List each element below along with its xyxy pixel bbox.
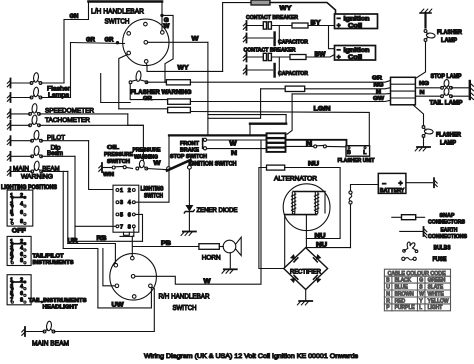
snap connector NU (267, 165, 285, 170)
oil pressure switch (102, 166, 126, 169)
svg-text:8: 8 (20, 258, 23, 264)
legend snap connectors (392, 215, 425, 220)
svg-text:FLASHER WARNING: FLASHER WARNING (131, 89, 192, 96)
svg-text:LIGHTING: LIGHTING (141, 187, 164, 193)
earth connection pilot lamp (7, 136, 10, 145)
svg-text:LAMP: LAMP (440, 141, 456, 147)
svg-text:STOP SWITCH: STOP SWITCH (170, 154, 207, 160)
wire flasher lamp left 2 (11, 97, 32, 99)
wire stack1 to flasher B (286, 140, 347, 146)
svg-text:Lamps: Lamps (48, 92, 69, 99)
svg-text:CABLE COLOUR CODE: CABLE COLOUR CODE (388, 271, 447, 277)
svg-text:RB: RB (97, 236, 108, 242)
ignition switch (167, 160, 192, 171)
svg-text:L/H HANDLEBAR: L/H HANDLEBAR (91, 7, 144, 16)
wire link vertical (285, 115, 287, 124)
wire GR riser flasher lamps (70, 43, 72, 98)
earth connection dip beam lamp (7, 152, 10, 161)
svg-text:GR: GR (105, 38, 115, 44)
svg-text:4: 4 (20, 284, 23, 290)
tachometer lamp (29, 115, 41, 127)
contact L/H upper-right (161, 31, 165, 35)
svg-text:+: + (337, 23, 341, 30)
svg-text:INSTRUMENTS: INSTRUMENTS (33, 260, 74, 266)
svg-text:W: W (163, 24, 169, 30)
wire W riser down (207, 42, 209, 134)
svg-text:6: 6 (128, 212, 131, 218)
wire UW riser (62, 171, 64, 248)
wire pilot to lighting switch (89, 141, 118, 190)
lighting switch tab (124, 232, 130, 235)
snap connector stack 4 (267, 148, 286, 152)
legend fuse (402, 257, 417, 260)
flasher lamp left 1 (30, 72, 42, 84)
wire stray left (101, 74, 131, 103)
contact L/H bottom (144, 60, 148, 64)
main beam warning lamp (31, 161, 43, 173)
contact L/H lower-left (127, 51, 131, 55)
wire ignition bus left drop (168, 135, 170, 202)
ground rectifier (297, 301, 312, 305)
wire N front brake (207, 148, 268, 150)
svg-text:8: 8 (128, 224, 131, 230)
wire GW drop (161, 2, 163, 31)
wire stop lamp earth (452, 87, 470, 89)
svg-text:FLASHER UNIT: FLASHER UNIT (338, 158, 376, 164)
svg-text:BLACK: BLACK (395, 278, 412, 284)
wire BY to coil 1 (308, 25, 335, 27)
svg-text:GN: GN (70, 14, 79, 20)
wire main beam warning riser UR (67, 171, 69, 243)
junction GW (160, 14, 163, 17)
svg-text:CONNECTIONS: CONNECTIONS (428, 234, 467, 240)
fuse battery (349, 191, 352, 204)
svg-text:N: N (420, 90, 425, 96)
wire speedometer riser (127, 114, 129, 125)
svg-text:GR: GR (143, 96, 153, 102)
wire tachometer to W (128, 125, 144, 160)
horn (223, 237, 241, 255)
wire stub left (120, 235, 134, 237)
svg-text:N: N (386, 291, 390, 297)
svg-text:UR: UR (68, 239, 79, 245)
svg-text:RED: RED (395, 298, 406, 304)
svg-text:R: R (386, 298, 390, 304)
contact R/H lower-right (149, 284, 153, 288)
wire BW to coil 2 (306, 55, 335, 58)
svg-text:8: 8 (20, 219, 23, 225)
wire thick bar (250, 122, 286, 124)
svg-text:SNAP: SNAP (440, 213, 455, 219)
svg-text:FRONT: FRONT (180, 141, 199, 147)
wire rectifier to ground (305, 290, 307, 302)
svg-text:GW: GW (373, 96, 385, 102)
svg-text:NU: NU (315, 232, 327, 239)
ground horn (222, 269, 237, 273)
wire WY to coil 1 (270, 3, 336, 15)
svg-text:BY: BY (311, 20, 322, 27)
wire W from R/H center (135, 140, 261, 284)
wire WY riser (223, 3, 251, 72)
lighting switch box (113, 185, 139, 232)
svg-text:UW: UW (112, 301, 124, 308)
wire tachometer lamp feed (40, 124, 144, 126)
svg-text:SWITCH: SWITCH (144, 194, 163, 200)
svg-text:6: 6 (20, 210, 23, 216)
earth contact breaker 2 (243, 53, 246, 62)
svg-text:CONNECTORS: CONNECTORS (428, 220, 465, 226)
wire stack3 to N switch (286, 145, 314, 147)
wire W to ignition (147, 169, 167, 170)
svg-text:RECTIFIER: RECTIFIER (290, 270, 322, 276)
cable colour code table (384, 269, 450, 311)
earth connection speedometer lamp (7, 109, 10, 118)
svg-text:BROWN: BROWN (395, 291, 415, 297)
wire UW bottom (98, 288, 151, 308)
wire speedometer lamp feed (40, 113, 128, 115)
wire pilot lamp (11, 140, 32, 142)
flasher warning lamp (129, 71, 148, 84)
rectifier (284, 248, 328, 290)
earth connection main beam warning lamp (7, 167, 10, 176)
wire fuse to rectifier (350, 204, 352, 248)
wire contact 7 left (75, 225, 116, 227)
lighting switch numbers (120, 188, 131, 230)
wire speedometer lamp (11, 113, 30, 115)
svg-text:ZENER DIODE: ZENER DIODE (197, 207, 238, 214)
wire flasher bottom to ground (423, 137, 425, 147)
svg-text:N: N (376, 89, 381, 95)
svg-text:WHITE: WHITE (428, 291, 445, 297)
earth connection tachometer lamp (7, 121, 10, 130)
svg-text:MAIN BEAM: MAIN BEAM (32, 339, 69, 348)
ignition coil 1 (335, 14, 378, 30)
svg-text:OFF: OFF (12, 228, 26, 235)
connector block rear harness (391, 77, 416, 105)
svg-text:WY: WY (178, 65, 190, 72)
svg-text:TAIL LAMP: TAIL LAMP (430, 99, 463, 106)
svg-text:W: W (230, 141, 238, 148)
snap connector LGN row (168, 107, 191, 112)
contact R/H center (131, 275, 135, 279)
snap connector stack 2 (267, 138, 286, 142)
alternator body (283, 184, 330, 231)
wire alternator right output (305, 215, 307, 248)
svg-text:BULBS: BULBS (434, 245, 451, 252)
svg-text:2: 2 (128, 188, 131, 194)
svg-text:Beam: Beam (47, 150, 63, 157)
dip beam lamp (31, 146, 43, 158)
contact breaker 1 points (247, 22, 293, 29)
svg-text:4: 4 (20, 201, 23, 207)
svg-text:ALTERNATOR: ALTERNATOR (274, 176, 317, 183)
svg-text:WN: WN (103, 172, 114, 178)
earth oil pressure switch (99, 163, 102, 172)
wire N to tail lamp (415, 95, 441, 97)
wire flasher bottom (413, 105, 424, 126)
wire battery negative (351, 185, 379, 192)
legend bulbs (403, 242, 418, 252)
wire flasher top to earth (424, 13, 426, 28)
snap connector horn (199, 244, 219, 250)
capacitor C1 (247, 26, 280, 46)
wire NG feed (261, 88, 286, 90)
ignition coil 2 (335, 46, 376, 62)
svg-text:W: W (192, 36, 200, 43)
svg-text:G: G (419, 278, 423, 284)
svg-text:7: 7 (120, 224, 123, 230)
wire L/H switch frame (162, 15, 173, 82)
capacitor C2 (247, 57, 280, 77)
wire dip beam lamp (11, 155, 32, 157)
wire left contact (103, 249, 115, 286)
svg-text:SWITCH: SWITCH (173, 303, 197, 312)
L/H handlebar switch body (123, 19, 169, 65)
contact R/H top (131, 256, 135, 260)
front brake stop switch (203, 138, 207, 150)
svg-text:FLASHER: FLASHER (436, 133, 462, 139)
svg-text:PRESSURE: PRESSURE (133, 148, 161, 154)
svg-text:3: 3 (120, 200, 123, 206)
svg-text:PILOT: PILOT (47, 135, 65, 142)
wire NU battery to rectifier (306, 247, 350, 249)
svg-text:NU: NU (316, 241, 328, 248)
svg-text:SWITCH: SWITCH (107, 159, 130, 165)
contact L/H top (144, 22, 148, 26)
flasher lamp left 2 (30, 87, 42, 99)
wire contact 4 to ignition bus (135, 201, 168, 203)
contact R/H upper-left (114, 263, 118, 267)
pilot lamp (31, 130, 43, 142)
rear brake switch N (314, 145, 327, 148)
svg-text:CONTACT BREAKER: CONTACT BREAKER (244, 48, 297, 54)
wire N drop (287, 94, 292, 134)
earth battery (434, 178, 437, 187)
wire flasher warning to connector (147, 81, 167, 83)
wire zener to ground (188, 212, 190, 232)
svg-text:STOP LAMP: STOP LAMP (431, 73, 462, 80)
wire ignition bus thick (169, 134, 267, 136)
svg-text:FLASHER: FLASHER (437, 30, 463, 36)
svg-text:LAMP: LAMP (441, 38, 457, 44)
svg-text:BLUE: BLUE (395, 284, 409, 290)
svg-text:−: − (337, 47, 341, 54)
wire main beam to R/H (54, 287, 154, 332)
earth contact breaker 1 (243, 21, 246, 30)
svg-text:CAPACITOR: CAPACITOR (278, 71, 309, 77)
svg-text:8: 8 (20, 298, 23, 304)
wire W from L/H center (148, 41, 208, 43)
wire NG to stop lamp (415, 87, 441, 89)
svg-text:SPEEDOMETER: SPEEDOMETER (45, 107, 94, 114)
svg-text:N: N (306, 141, 312, 147)
wire flasher top (415, 42, 425, 79)
contact R/H left (115, 284, 119, 288)
svg-text:R/H HANDLEBAR: R/H HANDLEBAR (159, 292, 210, 301)
svg-text:6: 6 (20, 252, 23, 258)
svg-text:TAIL,INSTRUMENTS: TAIL,INSTRUMENTS (29, 298, 87, 304)
svg-text:GR: GR (372, 76, 383, 82)
wire WY from bottom contact (146, 63, 222, 71)
earth stop/tail lamps (470, 81, 474, 100)
wire GW long (190, 100, 390, 101)
earth connection flasher lamp left 2 (7, 93, 10, 102)
svg-text:W: W (204, 278, 212, 285)
ground zener (181, 232, 196, 236)
svg-text:TACHOMETER: TACHOMETER (45, 117, 90, 124)
svg-text:PRESSURE: PRESSURE (104, 152, 133, 158)
svg-text:4: 4 (20, 245, 23, 251)
wire to horn (219, 246, 223, 248)
flasher lamp top right (424, 30, 435, 42)
svg-text:FUSE: FUSE (433, 256, 447, 263)
svg-text:6: 6 (20, 291, 23, 297)
main beam lamp (43, 321, 55, 333)
snap connector WY (251, 0, 270, 5)
ground flasher top (420, 9, 432, 13)
wire contact 6 (135, 214, 142, 241)
wire horn to ground (229, 253, 231, 269)
svg-text:NG: NG (419, 81, 430, 87)
wire W front brake (207, 139, 268, 141)
flasher lamp bottom right (422, 126, 433, 138)
snap connector GR row (166, 80, 190, 85)
wire N long (292, 93, 390, 95)
svg-text:+: + (337, 54, 341, 61)
junction GR (116, 41, 119, 44)
ground flasher bottom (415, 147, 430, 151)
svg-text:BRAKE: BRAKE (180, 148, 199, 154)
R/H handlebar switch body (110, 253, 157, 300)
wire NG drop (208, 89, 261, 119)
switch positions box OFF (7, 190, 33, 226)
contact L/H center (144, 41, 148, 45)
svg-text:WARNING: WARNING (21, 174, 53, 181)
svg-text:N: N (231, 150, 237, 157)
svg-text:W: W (419, 291, 424, 297)
wire main beam warning lamp feed (42, 170, 68, 172)
wire oil switch to pressure lamp (126, 167, 132, 168)
svg-text:PURPLE: PURPLE (395, 305, 416, 311)
zener diode (184, 205, 194, 213)
svg-text:PB: PB (161, 241, 172, 247)
svg-text:HEADLIGHT: HEADLIGHT (43, 305, 78, 311)
svg-text:W: W (154, 160, 162, 167)
wire coil1 + to coil2 - (329, 26, 335, 49)
wire N switch to flasher unit (326, 145, 346, 147)
contact breaker 2 points (247, 53, 291, 60)
svg-text:CONTACT BREAKER: CONTACT BREAKER (246, 15, 299, 21)
svg-text:NU: NU (308, 161, 320, 168)
svg-text:Coil: Coil (348, 54, 362, 61)
wire main beam warning lamp (11, 170, 32, 172)
snap connector GW row (168, 99, 191, 104)
svg-text:BW: BW (315, 51, 327, 58)
wire dip beam riser RB (74, 156, 76, 241)
wire contact 8 drop (132, 228, 134, 256)
battery (378, 173, 406, 193)
snap connector NG (285, 86, 305, 91)
svg-text:+: + (399, 181, 403, 188)
wire lower-left contact drop (119, 55, 128, 109)
wire GR drop to LGN connector (119, 108, 168, 110)
svg-text:LIGHT: LIGHT (428, 305, 443, 311)
svg-text:B: B (347, 150, 351, 156)
wire battery positive earth (406, 182, 433, 184)
svg-text:EARTH: EARTH (441, 228, 458, 234)
wire tail lamp earth (452, 95, 470, 97)
wire link horizontal (208, 114, 286, 116)
wire GR to L/H switch (71, 43, 125, 44)
wire LG/N long (190, 112, 369, 146)
wire PB horn (133, 246, 199, 248)
wire pilot lamp feed (42, 140, 89, 142)
wire UW upper (63, 249, 98, 308)
lighting switch contacts (116, 189, 135, 228)
pressure warning lamp (136, 160, 148, 170)
flasher unit (346, 146, 370, 157)
svg-text:TAIL/PILOT: TAIL/PILOT (33, 254, 64, 260)
wire GR long (190, 81, 390, 83)
wire NU right (285, 168, 340, 239)
wire ignition to zener (188, 169, 190, 205)
wire tachometer lamp (11, 124, 30, 126)
wire alternator left output (284, 215, 286, 269)
svg-text:−: − (337, 16, 341, 23)
svg-text:SLATE: SLATE (428, 284, 444, 290)
wire flasher lamp left 1 (11, 82, 32, 84)
svg-text:Coil: Coil (348, 22, 362, 29)
svg-text:YELLOW: YELLOW (428, 298, 449, 304)
contact R/H bottom (132, 295, 136, 299)
svg-text:NG: NG (374, 83, 385, 89)
earth capacitor 1 (243, 34, 246, 43)
wire NG long (305, 88, 391, 89)
svg-text:LG/N: LG/N (314, 106, 332, 113)
svg-text:BATTERY: BATTERY (380, 188, 405, 194)
alternator windings (285, 192, 325, 215)
wire RB (75, 240, 143, 242)
svg-text:4: 4 (128, 200, 131, 206)
contact L/H upper-left (127, 32, 131, 36)
svg-text:1: 1 (120, 188, 123, 194)
svg-text:Wiring Diagram (UK & USA) 12 V: Wiring Diagram (UK & USA) 12 Volt Coil I… (144, 353, 359, 360)
svg-text:U: U (386, 284, 390, 290)
earth connection flasher lamp left 1 (7, 79, 10, 88)
wire GN riser (64, 2, 89, 84)
svg-text:5: 5 (120, 212, 123, 218)
stop lamp (441, 79, 453, 89)
snap connector stack 3 (267, 143, 286, 147)
snap connector BY (292, 23, 308, 28)
svg-text:GR: GR (86, 38, 96, 44)
svg-text:GREEN: GREEN (428, 278, 446, 284)
snap connector BW (290, 55, 306, 60)
snap connector stack 1 (267, 133, 286, 138)
svg-text:HORN: HORN (202, 254, 221, 261)
wire flasher lamp left 1 feed (41, 82, 64, 84)
wire dip beam lamp feed (42, 155, 75, 157)
svg-text:L: L (419, 305, 422, 311)
wire UR (68, 244, 116, 264)
wire NU left (259, 168, 284, 269)
wire flasher lamp left 2 feed (41, 97, 71, 99)
svg-text:OIL: OIL (107, 145, 120, 151)
tail lamp (441, 88, 453, 98)
wire main beam left (25, 331, 44, 333)
svg-text:CAPACITOR: CAPACITOR (278, 40, 309, 46)
wire thick bar drop (249, 124, 251, 136)
